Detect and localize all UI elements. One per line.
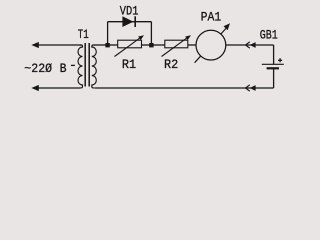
battery GB1 minus plate (short thick): [267, 67, 279, 69]
resistor R2 wiper arrow diagonal: [162, 38, 187, 56]
wire bottom rail battery to transformer secondary: [95, 87, 274, 89]
svg-text:R1: R1: [122, 57, 136, 72]
resistor R2 body: [165, 40, 188, 48]
connector arrow top filled: [250, 42, 256, 48]
wire R2 to PA1: [188, 44, 197, 46]
ammeter PA1 adjustment arrow shaft: [195, 28, 226, 62]
node B junction dot: [149, 43, 153, 47]
connector arrow bottom open chevron: [246, 85, 250, 91]
resistor R1 body: [118, 40, 142, 48]
wire node A to R1: [108, 44, 118, 46]
svg-text:T1: T1: [78, 27, 89, 42]
dash right of label: [71, 64, 75, 66]
arrow mains top: [31, 42, 38, 48]
wire secondary top to node A: [94, 44, 108, 46]
wire VD1 branch: [108, 21, 152, 23]
node A junction dot: [105, 43, 109, 47]
svg-text:В: В: [60, 61, 67, 76]
connector arrow top open chevron: [246, 42, 250, 48]
wire battery corner down to plus plate: [273, 45, 275, 64]
wire bottom-left mains to transformer primary: [37, 87, 80, 89]
battery plus sign: [278, 58, 282, 62]
ammeter PA1 arrowhead: [224, 23, 230, 30]
svg-text:~22Ø: ~22Ø: [24, 61, 52, 76]
riser VD1 branch right: [150, 22, 152, 45]
transformer core line right: [88, 43, 90, 87]
wire R1 to node B: [142, 44, 152, 46]
transformer core line left: [84, 43, 86, 87]
diode VD1: [122, 16, 133, 27]
wire top-left mains to transformer primary: [37, 44, 81, 46]
battery GB1 plus plate (long): [262, 63, 284, 65]
transformer T1 primary winding: [78, 45, 83, 88]
wire battery minus down to bottom rail: [273, 69, 275, 88]
connector arrow bottom filled: [250, 85, 256, 91]
resistor R1 wiper arrow diagonal: [115, 38, 140, 56]
diode VD1 cathode bar: [134, 16, 136, 27]
arrow mains bottom: [31, 85, 38, 91]
wire PA1 to battery corner: [226, 44, 274, 46]
riser VD1 branch left: [107, 22, 109, 45]
svg-text:GB1: GB1: [260, 28, 278, 43]
wire node B to R2: [151, 44, 164, 46]
ammeter PA1 body: [196, 30, 226, 60]
svg-text:PA1: PA1: [201, 9, 222, 24]
transformer T1 secondary winding: [92, 45, 97, 88]
svg-text:R2: R2: [164, 57, 178, 72]
